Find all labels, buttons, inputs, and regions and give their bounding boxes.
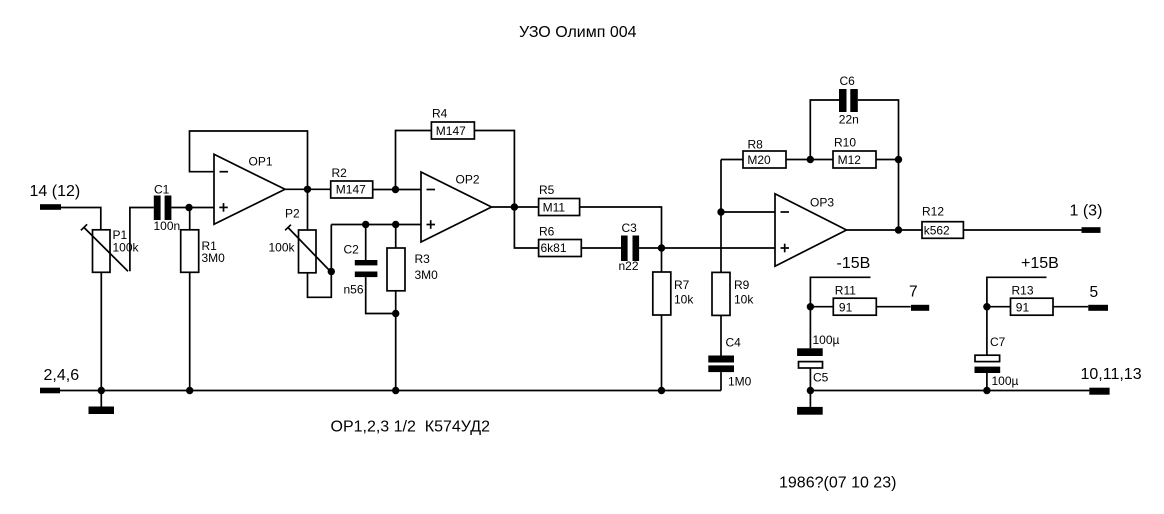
potentiometer P1 (93, 230, 111, 272)
svg-text:1 (3): 1 (3) (1070, 202, 1103, 219)
resistor R13 (1011, 298, 1054, 315)
svg-text:P2: P2 (285, 207, 300, 221)
ground symbol right (809, 391, 811, 407)
svg-text:91: 91 (1016, 300, 1030, 314)
svg-text:OP1,2,3 1/2 К574УД2: OP1,2,3 1/2 К574УД2 (331, 419, 491, 436)
resistor R9 (712, 272, 730, 315)
capacitor C7 (986, 307, 988, 355)
wire minus node to OP3 (721, 211, 775, 213)
svg-text:100µ: 100µ (992, 374, 1019, 388)
svg-text:1986?(07 10 23): 1986?(07 10 23) (779, 474, 896, 491)
svg-text:5: 5 (1090, 284, 1099, 301)
svg-text:OP2: OP2 (456, 173, 480, 187)
resistor R7 (661, 248, 663, 272)
resistor R1 (189, 208, 191, 230)
wire P1 bottom to rail (100, 272, 102, 390)
capacitor C5 (809, 307, 811, 349)
capacitor C3 (621, 236, 628, 262)
wire OP2 out (492, 206, 539, 208)
svg-text:R9: R9 (734, 278, 750, 292)
node R3 rail (392, 387, 399, 394)
svg-text:R10: R10 (834, 136, 856, 150)
resistor R12 (922, 222, 963, 239)
node C7 rail (983, 387, 990, 394)
svg-text:R12: R12 (922, 205, 944, 219)
node C5 rail (807, 387, 814, 394)
node OP2 out (511, 203, 518, 210)
svg-text:+15В: +15В (1021, 255, 1059, 272)
svg-text:10,11,13: 10,11,13 (1081, 366, 1142, 383)
node R4 left (392, 186, 399, 193)
node C2/R3 bottom (392, 310, 399, 317)
svg-text:R6: R6 (539, 224, 555, 238)
wire R4 left (396, 131, 432, 190)
node R13 left (983, 303, 990, 310)
node A (658, 244, 665, 251)
node OP3 out (895, 226, 902, 233)
svg-text:R7: R7 (674, 278, 690, 292)
wire R4 right (474, 131, 514, 208)
resistor R10 (833, 151, 876, 168)
power rail (810, 390, 1089, 392)
svg-text:6k81: 6k81 (541, 241, 567, 255)
svg-text:C1: C1 (154, 183, 170, 197)
capacitor C6 (810, 100, 839, 160)
wire R8 riser through to R9 (720, 160, 722, 273)
wire OP2 plus line (331, 224, 421, 226)
svg-text:OP1: OP1 (249, 155, 273, 169)
wire R6 to C3 (581, 247, 621, 249)
node P1 rail (98, 387, 105, 394)
svg-text:C4: C4 (726, 336, 742, 350)
wire C3 to node A (639, 247, 661, 249)
svg-text:3M0: 3M0 (415, 268, 439, 282)
svg-text:91: 91 (839, 300, 853, 314)
svg-text:M11: M11 (543, 201, 566, 215)
svg-text:C3: C3 (622, 221, 638, 235)
svg-text:3M0: 3M0 (202, 251, 226, 265)
svg-text:100k: 100k (269, 241, 296, 255)
svg-text:УЗО Олимп 004: УЗО Олимп 004 (519, 24, 637, 41)
node C2 top (362, 221, 369, 228)
svg-text:10k: 10k (674, 293, 694, 307)
svg-text:C6: C6 (840, 74, 856, 88)
svg-text:OP3: OP3 (810, 196, 834, 210)
svg-text:100µ: 100µ (813, 333, 840, 347)
node R1 rail (186, 387, 193, 394)
resistor R4 (431, 122, 474, 139)
wire R8 right (786, 159, 833, 161)
wire R5 right (580, 207, 662, 248)
node OP1 out (304, 186, 311, 193)
resistor R3 (395, 225, 397, 249)
node R10 right (895, 156, 902, 163)
node R7 rail (658, 387, 665, 394)
svg-text:k562: k562 (924, 224, 950, 238)
node P2 wiper (328, 268, 335, 275)
main ground rail (60, 390, 721, 392)
wire to R6 (514, 207, 538, 248)
resistor R2 (331, 181, 373, 198)
svg-text:C7: C7 (990, 335, 1006, 349)
svg-text:R13: R13 (1012, 284, 1034, 298)
capacitor C1 (154, 196, 161, 221)
node R11 left (807, 303, 814, 310)
wire R12 to output terminal (963, 229, 1081, 231)
wire input to P1 top (61, 208, 101, 230)
svg-text:100k: 100k (113, 241, 140, 255)
resistor R6 (539, 240, 582, 257)
svg-text:R8: R8 (748, 138, 764, 152)
wire +15B stub (987, 277, 1047, 306)
node OP3 minus (717, 208, 724, 215)
node C1/R1/OP1 (185, 204, 192, 211)
svg-text:14 (12): 14 (12) (30, 183, 81, 200)
wire R2 to OP2 (373, 189, 421, 191)
svg-text:7: 7 (909, 284, 918, 301)
node R3 top (392, 221, 399, 228)
capacitor C4 (708, 356, 734, 363)
wire C1 to OP1 + input (171, 207, 214, 209)
svg-text:1M0: 1M0 (728, 375, 752, 389)
wire -15B stub (810, 277, 870, 306)
capacitor C2 (365, 225, 367, 261)
svg-text:n56: n56 (344, 283, 364, 297)
wire P2 top (307, 189, 309, 230)
op-amp OP1 (214, 154, 285, 224)
wire R8 left (721, 159, 743, 161)
svg-text:R5: R5 (539, 183, 555, 197)
op-amp OP2 (421, 172, 492, 242)
svg-text:-15В: -15В (837, 255, 871, 272)
wire P2 riser (308, 225, 332, 298)
svg-text:M12: M12 (838, 153, 862, 167)
wire R1 bottom to rail (189, 272, 191, 390)
svg-text:R4: R4 (432, 107, 448, 121)
wire R10 right (876, 159, 899, 161)
svg-text:2,4,6: 2,4,6 (44, 367, 80, 384)
wire node A to OP3 plus (662, 247, 776, 249)
wire P1 wiper to C1 (130, 208, 154, 272)
svg-text:10k: 10k (734, 293, 754, 307)
svg-text:R2: R2 (332, 166, 348, 180)
svg-text:22n: 22n (839, 113, 859, 127)
wire OP1 feedback (190, 131, 308, 189)
resistor R8 (743, 151, 786, 168)
node R8/R10 (807, 156, 814, 163)
op-amp OP3 (775, 194, 847, 266)
svg-text:100n: 100n (154, 219, 181, 233)
ground symbol left (100, 391, 102, 407)
svg-text:M147: M147 (436, 124, 466, 138)
svg-text:C2: C2 (344, 243, 360, 257)
svg-text:n22: n22 (619, 259, 639, 273)
svg-text:M147: M147 (336, 183, 366, 197)
svg-text:C5: C5 (813, 371, 829, 385)
resistor R5 (539, 199, 580, 216)
svg-text:R3: R3 (415, 252, 431, 266)
wire OP1 output (285, 188, 331, 190)
resistor R11 (833, 298, 876, 315)
svg-text:R11: R11 (835, 284, 856, 298)
wire OP3 output (847, 229, 923, 231)
potentiometer P2 (299, 230, 317, 273)
svg-text:M20: M20 (747, 153, 771, 167)
